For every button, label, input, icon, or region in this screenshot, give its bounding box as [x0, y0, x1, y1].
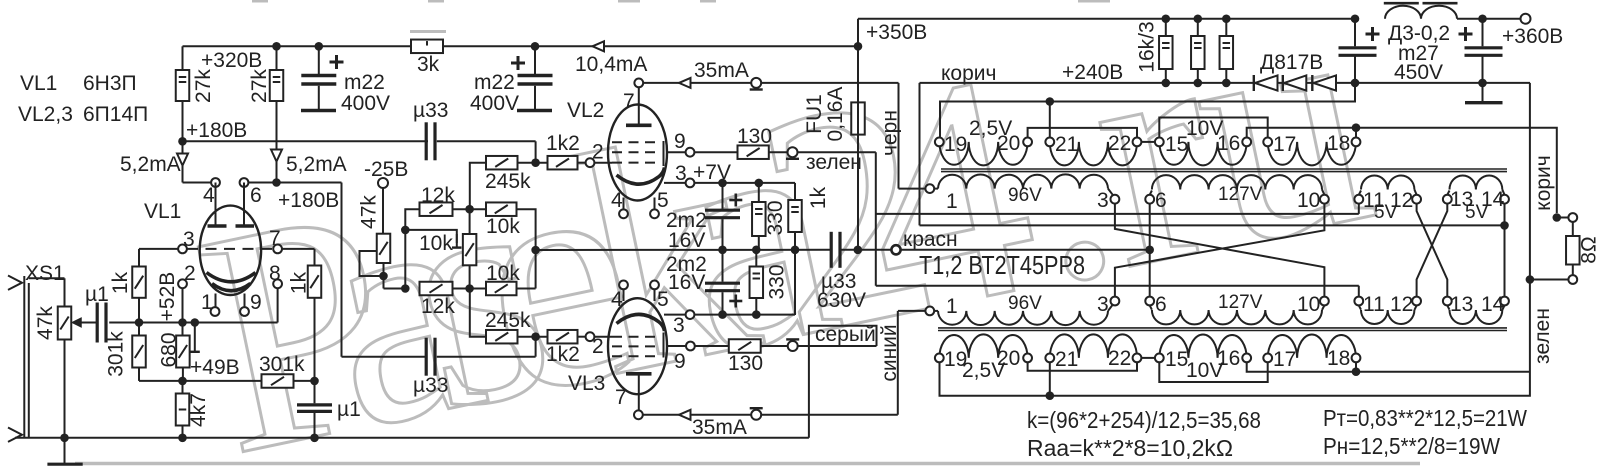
svg-text:15: 15 — [1165, 348, 1188, 371]
wire korich rail +240V — [920, 82, 1531, 84]
svg-text:6: 6 — [250, 184, 262, 207]
svg-text:27k: 27k — [192, 69, 215, 103]
node korich at 14 link — [1500, 221, 1509, 230]
diode zener D817B #2 — [1282, 75, 1284, 91]
svg-text:10k: 10k — [419, 232, 453, 255]
winding 10V lower 17-18 — [1268, 334, 1356, 357]
svg-text:6: 6 — [1155, 189, 1167, 212]
wire 18 riser lower — [1355, 362, 1357, 371]
svg-text:127V: 127V — [1218, 184, 1263, 205]
VL2 pin4 stub — [623, 198, 625, 210]
svg-text:1k2: 1k2 — [546, 132, 580, 155]
wire VL2 cathode row — [694, 182, 795, 184]
terminal 10 upper — [1320, 195, 1329, 204]
svg-text:12: 12 — [1390, 293, 1413, 316]
svg-text:6П14П: 6П14П — [83, 103, 148, 126]
core lower transformer — [938, 327, 1507, 329]
terminal 13 lower — [1443, 297, 1452, 306]
node ground at pot — [60, 434, 69, 443]
wire VL2 pin3 from tube — [664, 182, 686, 184]
svg-text:16k/3: 16k/3 — [1136, 21, 1159, 72]
svg-text:Т1,2 ВТ2Т45РР8: Т1,2 ВТ2Т45РР8 — [919, 250, 1085, 280]
winding 10V lower 15-16 — [1159, 334, 1246, 357]
winding 5V lower 11-12 — [1359, 305, 1361, 309]
pin 9 terminal VL3 — [686, 342, 695, 351]
svg-text:корич: корич — [941, 62, 996, 85]
svg-text:13: 13 — [1450, 293, 1473, 316]
trimmer 10k wiper bar — [456, 234, 458, 243]
wire pin9 to 130 #2 — [695, 345, 729, 347]
potentiometer 47k bias — [382, 188, 384, 234]
terminal +360B — [1521, 14, 1531, 24]
wire seryi loop to ground — [809, 326, 877, 438]
node 21 lower junction — [1046, 391, 1055, 400]
bracket 20-22 lower — [1028, 362, 1137, 370]
node ground at 4k7 — [178, 434, 187, 443]
svg-text:VL3: VL3 — [568, 372, 605, 395]
svg-text:21: 21 — [1055, 133, 1078, 156]
wire chern to corner — [761, 82, 898, 84]
tube VL2 envelope — [608, 105, 667, 201]
svg-text:20: 20 — [997, 347, 1020, 370]
node row3 junction — [465, 284, 474, 293]
svg-text:VL2: VL2 — [567, 99, 604, 122]
node row2 junction — [465, 205, 474, 214]
svg-text:5,2mA: 5,2mA — [286, 153, 347, 176]
winding 5V upper 13-14 — [1447, 191, 1449, 195]
winding 96V upper — [934, 188, 938, 190]
pin 7 terminal VL3 — [634, 410, 643, 419]
wire VL3 pin3 from tube — [664, 314, 686, 316]
wire 245k to 1k2 upper — [518, 162, 548, 164]
resistor 1k VL2 feed — [794, 183, 796, 200]
wire top rail2 +350V distribution — [858, 18, 1355, 20]
wire VL3 pin9 from tube — [666, 345, 686, 347]
svg-text:630V: 630V — [817, 289, 866, 312]
svg-text:22: 22 — [1108, 347, 1131, 370]
current arrow 35mA upper — [679, 78, 691, 88]
svg-text:3k: 3k — [417, 53, 440, 76]
wire pot bottom to ground — [64, 340, 66, 438]
terminal -25B — [378, 178, 388, 188]
svg-text:10k: 10k — [486, 215, 520, 238]
VL3 grid dashes row2 — [612, 345, 658, 347]
winding 127V lower — [1150, 305, 1152, 309]
resistor 330 #2 — [755, 250, 757, 267]
svg-text:130: 130 — [737, 125, 772, 148]
svg-text:680: 680 — [158, 332, 181, 367]
svg-text:10: 10 — [1297, 293, 1320, 316]
svg-text:1: 1 — [946, 295, 958, 318]
winding 5V upper 11-12 — [1359, 191, 1361, 195]
resistor 301k #1 — [138, 323, 140, 336]
node FU1 on krasn wire — [854, 246, 863, 255]
connector contact krasn — [891, 245, 900, 254]
node mid rail junction x535 — [531, 246, 540, 255]
svg-text:1k2: 1k2 — [546, 343, 580, 366]
resistor 16k/3 #3 — [1222, 14, 1231, 23]
wire cathode row +49B — [139, 380, 262, 382]
core upper transformer — [941, 168, 1507, 170]
wire 21 upper riser — [1049, 102, 1051, 138]
node 21 upper junction — [1046, 97, 1055, 106]
terminal 16 lower — [1242, 354, 1251, 363]
tube VL3 envelope — [608, 298, 667, 394]
winding 10V upper 15-16 — [1159, 142, 1246, 165]
winding 2,5V upper 21-22 — [1050, 142, 1137, 166]
svg-text:+180В: +180В — [278, 189, 339, 212]
svg-text:330: 330 — [766, 264, 789, 299]
resistor 16k/3 #2 — [1194, 14, 1203, 23]
VL3 pin4 stub — [623, 289, 625, 301]
winding 2,5V lower 19-20 — [939, 334, 1027, 358]
svg-text:1k: 1k — [288, 271, 311, 294]
resistor R 27k #2 — [276, 46, 278, 70]
terminal 3 lower — [1111, 297, 1120, 306]
wire siniy to primary 1 lower — [898, 310, 925, 312]
svg-text:+360В: +360В — [1502, 25, 1563, 48]
resistor 10k upper — [486, 202, 517, 216]
resistor 4k7 — [182, 381, 184, 394]
svg-text:10k: 10k — [486, 262, 520, 285]
node 680 top junction — [178, 318, 187, 327]
node wiper tap junction — [401, 226, 410, 235]
wire tap to 10k trimmer wiper — [405, 230, 457, 248]
resistor R 3k — [411, 40, 443, 54]
capacitor 2m2 16V #1 — [722, 183, 724, 209]
wire to 8ohm top — [1557, 217, 1569, 219]
svg-text:VL1: VL1 — [144, 200, 181, 223]
wire 13up to 12low crossing — [1417, 204, 1448, 297]
VL1 heater bar left — [215, 183, 217, 225]
connector contact seryi — [788, 341, 798, 351]
svg-text:8Ω: 8Ω — [1578, 236, 1600, 263]
pin 2 terminal VL2 — [586, 158, 595, 167]
svg-text:8: 8 — [269, 262, 281, 285]
wire 10up to 3low crossing — [1115, 204, 1325, 297]
resistor 330 #1 — [758, 183, 760, 202]
terminal 15 upper — [1155, 138, 1164, 147]
wire row2 left bend — [405, 209, 419, 288]
wire zelen branch to 11 lower — [876, 285, 1359, 287]
capacitor mu33 #1 — [535, 141, 537, 162]
connector XS1 chevron signal — [8, 276, 22, 290]
svg-text:35mA: 35mA — [692, 416, 747, 439]
VL3 anode pin7 stub — [638, 376, 640, 411]
svg-text:1: 1 — [201, 291, 213, 314]
node pin6/27k junction — [272, 178, 281, 187]
node grid VL1 junction — [135, 318, 144, 327]
svg-text:2: 2 — [592, 141, 604, 164]
VL3 grid dashes row3 — [612, 355, 658, 357]
wire to 8ohm bottom — [1530, 279, 1569, 281]
winding 10V upper 17-18 — [1268, 142, 1356, 165]
svg-text:245k: 245k — [485, 170, 531, 193]
svg-text:18: 18 — [1327, 347, 1350, 370]
svg-text:96V: 96V — [1008, 185, 1042, 206]
potentiometer 47k volume — [58, 307, 72, 340]
VL2 grid dashes row1 — [612, 141, 658, 143]
terminal 14 upper — [1500, 195, 1509, 204]
svg-text:127V: 127V — [1218, 292, 1263, 313]
svg-text:301k: 301k — [259, 353, 305, 376]
svg-text:µ1: µ1 — [337, 398, 361, 421]
VL3 grid dashes row1 — [612, 336, 658, 338]
terminal 21 upper — [1045, 138, 1054, 147]
wire VL3 cathode row — [694, 314, 795, 316]
diode zener D817B #1 — [1253, 75, 1255, 91]
current arrow 10,4mA on rail — [593, 41, 605, 51]
capacitor m27 450V #1 — [1351, 14, 1360, 23]
VL3 internal right link — [663, 333, 665, 358]
svg-text:16: 16 — [1217, 347, 1240, 370]
svg-text:7: 7 — [615, 386, 627, 409]
current arrow 5,2mA #1 — [182, 141, 184, 153]
svg-text:2: 2 — [184, 262, 196, 285]
pin 6 terminal VL1 — [240, 178, 249, 187]
terminal 17 lower — [1263, 354, 1272, 363]
wire VL1 pin4 anode — [183, 182, 212, 184]
winding 2,5V lower 21-22 — [1050, 334, 1137, 358]
svg-text:9: 9 — [674, 350, 686, 373]
connector contact siniy — [751, 410, 761, 420]
wire 1k2 to pin2 VL2 — [578, 162, 586, 164]
svg-text:4: 4 — [203, 184, 215, 207]
resistor 1k2 lower — [548, 330, 578, 344]
svg-text:5V: 5V — [1465, 202, 1489, 223]
capacitor mu1 #2 — [314, 381, 316, 403]
VL2 pin5 stub — [654, 198, 656, 210]
svg-text:245k: 245k — [485, 309, 531, 332]
svg-text:VL1: VL1 — [20, 72, 57, 95]
node 680 wiper junction — [191, 318, 200, 327]
svg-text:черн: черн — [879, 110, 902, 156]
terminal 13 upper — [1443, 195, 1452, 204]
pin 1 stub VL1 — [215, 294, 217, 308]
current arrow 35mA lower — [679, 410, 691, 420]
node 2m2 mid junction — [718, 246, 727, 255]
terminal 19 lower — [935, 354, 944, 363]
wire pin2 down to 680 node — [182, 288, 184, 322]
svg-text:3: 3 — [675, 162, 687, 185]
wire chern to primary 1 — [899, 188, 926, 190]
svg-text:Raa=k**2*8=10,2kΩ: Raa=k**2*8=10,2kΩ — [1027, 435, 1233, 461]
node 1k2/301k/mu1 junction — [310, 377, 319, 386]
svg-text:корич: корич — [1532, 155, 1555, 210]
terminal 12 lower — [1412, 297, 1421, 306]
wire pin2 into VL2 — [594, 162, 612, 164]
wire middle cathode rail — [536, 249, 831, 251]
svg-text:16V: 16V — [668, 271, 705, 294]
VL2 grid dashes row2 — [612, 151, 658, 153]
pin 9 terminal VL2 — [686, 148, 695, 157]
wire input to pot — [29, 277, 65, 279]
svg-text:9: 9 — [674, 130, 686, 153]
svg-text:-25В: -25В — [364, 158, 408, 181]
svg-text:2: 2 — [592, 335, 604, 358]
winding 127V upper — [1150, 191, 1152, 195]
svg-text:Рн=12,5**2/8=19W: Рн=12,5**2/8=19W — [1323, 433, 1500, 459]
svg-text:m22: m22 — [474, 71, 515, 94]
wire 130 to connector — [769, 151, 788, 153]
svg-text:XS1: XS1 — [25, 262, 65, 285]
node junction top rail at m22#1 — [315, 42, 324, 51]
svg-text:19: 19 — [944, 133, 967, 156]
VL2 internal right link — [663, 141, 665, 166]
VL1 heater bar right — [243, 183, 245, 225]
trimmer 47k wiper link — [360, 251, 384, 276]
svg-text:12k: 12k — [421, 295, 455, 318]
VL2 anode bar — [626, 124, 652, 128]
node 2m2#1 top — [718, 179, 727, 188]
svg-text:11: 11 — [1363, 293, 1385, 316]
VL3 anode bar — [626, 372, 652, 376]
fuse FU1 0,16A — [857, 46, 859, 102]
svg-text:µ33: µ33 — [413, 99, 448, 122]
wire siniy vertical — [897, 311, 899, 415]
wire row2 mid — [453, 208, 487, 210]
pin 4 terminal VL1 — [211, 178, 220, 187]
node 330#1 top — [755, 179, 764, 188]
resistor 1k VL1b anode — [314, 249, 316, 266]
wire zelen to transformer — [798, 151, 876, 153]
pin 3 terminal VL2 — [686, 179, 695, 188]
pin 7 terminal VL2 — [634, 79, 643, 88]
terminal 1 upper primary — [925, 184, 934, 193]
svg-text:3: 3 — [1097, 293, 1109, 316]
terminal 21 lower — [1045, 354, 1054, 363]
svg-text:9: 9 — [250, 291, 262, 314]
svg-text:15: 15 — [1165, 133, 1188, 156]
wire 22-15 link upper — [1141, 141, 1155, 143]
ground bus bottom — [15, 437, 809, 439]
pot 47k wiper arrow — [81, 322, 97, 324]
resistor 130 #1 — [738, 145, 769, 159]
trimmer 680 wiper arm — [194, 323, 196, 352]
svg-text:16: 16 — [1217, 132, 1240, 155]
capacitor mu33 #2 — [535, 337, 537, 357]
node +180V junction — [178, 137, 187, 146]
resistor 245k lower — [470, 289, 486, 337]
wire pin8 down and left to cathode node — [277, 288, 279, 322]
connector XS1 cable double line — [23, 276, 25, 438]
terminal 18 upper — [1352, 138, 1361, 147]
wire 16-18 output lower — [1247, 362, 1530, 371]
wire 1k2 to pin2 VL3 — [578, 336, 586, 338]
wire pin9 to 130 — [694, 151, 737, 153]
svg-text:+49В: +49В — [190, 356, 240, 379]
wire 19-21 lower link — [940, 83, 1530, 396]
winding 96V lower — [934, 310, 938, 312]
wire 21 lower riser — [1049, 362, 1051, 395]
svg-text:450V: 450V — [1394, 61, 1443, 84]
resistor 8 Ohm load — [1572, 222, 1574, 236]
svg-text:4: 4 — [611, 288, 623, 311]
wire pin6 to grid network — [248, 182, 341, 184]
node 680/4k7 junction — [178, 377, 187, 386]
node 6 krasn junction — [1145, 246, 1154, 255]
terminal 10 lower — [1320, 297, 1329, 306]
resistor 130 #2 — [729, 339, 761, 353]
terminal 17 upper — [1263, 138, 1272, 147]
node junction top rail at m22#2 — [531, 42, 540, 51]
svg-text:+240В: +240В — [1062, 61, 1123, 84]
svg-text:7: 7 — [623, 90, 635, 113]
wire krasn — [840, 249, 1150, 251]
svg-text:3: 3 — [673, 314, 685, 337]
svg-text:301k: 301k — [105, 331, 128, 377]
capacitor 2m2 16V #2 — [722, 250, 724, 282]
svg-text:+52В: +52В — [156, 272, 179, 322]
wire korich vertical drop — [919, 83, 921, 226]
svg-text:17: 17 — [1273, 348, 1296, 371]
wire 35mA VL3 plate siniy — [643, 414, 751, 416]
svg-text:6Н3П: 6Н3П — [83, 72, 137, 95]
resistor 1k grid stopper VL1a — [138, 249, 140, 267]
resistor 10k lower — [486, 282, 517, 296]
svg-text:VL2,3: VL2,3 — [18, 103, 73, 126]
node 18 junction upper — [1352, 123, 1361, 132]
wire pin9 from tube — [666, 151, 686, 153]
svg-text:10: 10 — [1297, 189, 1320, 212]
terminal 20 upper — [1023, 138, 1032, 147]
svg-text:1k: 1k — [807, 186, 830, 209]
current arrow 5,2mA #2 — [271, 150, 282, 162]
ground symbol — [64, 438, 66, 463]
pin 2 terminal VL3 — [586, 332, 595, 341]
wire +320V top rail — [183, 45, 859, 47]
node junction top rail at 27k#2 — [272, 42, 281, 51]
svg-text:5: 5 — [657, 288, 669, 311]
choke D3-0,2 m27 — [1385, 6, 1457, 19]
svg-text:µ33: µ33 — [413, 374, 448, 397]
svg-text:27k: 27k — [248, 69, 271, 103]
svg-text:21: 21 — [1055, 348, 1078, 371]
node 18 junction lower — [1352, 367, 1361, 376]
node grid node VL3 — [531, 332, 540, 341]
svg-text:+350В: +350В — [866, 21, 927, 44]
terminal 16 upper — [1242, 138, 1251, 147]
wire wiper link — [183, 322, 195, 324]
svg-text:400V: 400V — [341, 92, 390, 115]
terminal 18 lower — [1352, 354, 1361, 363]
winding 5V lower 13-14 — [1447, 305, 1449, 309]
svg-text:400V: 400V — [470, 92, 519, 115]
resistor 1k2 upper — [548, 156, 578, 170]
resistor 245k upper — [470, 163, 486, 210]
node 330#2 bottom — [752, 310, 761, 319]
resistor 10k vertical trimmer — [469, 209, 471, 234]
node +350V junction — [854, 42, 863, 51]
svg-text:17: 17 — [1273, 133, 1296, 156]
wire korich to 14-14 link — [920, 224, 1505, 226]
svg-text:7: 7 — [269, 227, 281, 250]
resistor 12k lower — [420, 282, 453, 296]
capacitor m27 450V #2 — [1478, 14, 1487, 23]
svg-text:зелен: зелен — [806, 151, 862, 174]
svg-text:Рт=0,83**2*12,5=21W: Рт=0,83**2*12,5=21W — [1323, 405, 1527, 431]
svg-text:3: 3 — [1097, 189, 1109, 212]
svg-text:20: 20 — [997, 132, 1020, 155]
VL3 pin5 stub — [654, 289, 656, 301]
node ground at mu1#2 — [310, 434, 319, 443]
svg-text:6: 6 — [1155, 293, 1167, 316]
node 47k wiper junction — [379, 272, 388, 281]
svg-text:12k: 12k — [421, 184, 455, 207]
svg-text:18: 18 — [1327, 132, 1350, 155]
VL2 grid dashes row3 — [612, 162, 658, 164]
svg-text:330: 330 — [764, 200, 787, 235]
